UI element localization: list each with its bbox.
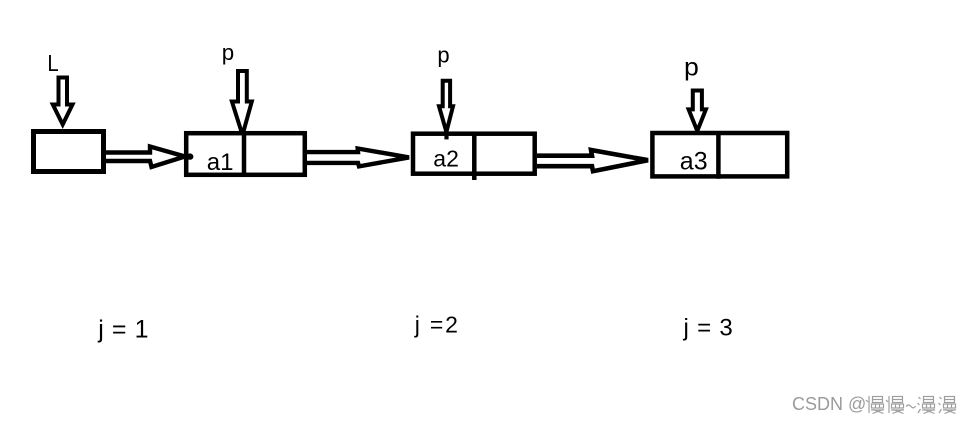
header box L: [34, 132, 104, 172]
慢 #2: [886, 396, 904, 414]
漫 #1: [918, 397, 936, 414]
down block arrow p over a2: [439, 81, 453, 132]
wire arrow L to a1: [106, 147, 185, 168]
wire arrow a2 to a3: [537, 150, 648, 171]
down block arrow p over a1: [232, 71, 252, 135]
漫 #2: [939, 397, 957, 414]
node a1 box: [186, 133, 305, 175]
node a2 divider: [472, 132, 477, 181]
svg-text:a2: a2: [433, 146, 459, 172]
tilde: [906, 405, 916, 408]
svg-text:CSDN @: CSDN @: [792, 394, 866, 414]
svg-text:p: p: [222, 40, 234, 65]
svg-text:L: L: [47, 50, 58, 76]
svg-text:j = 1: j = 1: [97, 315, 149, 343]
svg-text:p: p: [437, 43, 449, 68]
svg-text:a1: a1: [207, 149, 234, 176]
node a1 divider: [242, 131, 247, 177]
watermark CJK glyphs approximation: [866, 396, 956, 414]
arrow tip nub inside a1: [187, 153, 194, 159]
svg-text:p: p: [684, 54, 699, 82]
watermark CSDN: [792, 394, 866, 414]
node a2 box: [413, 134, 535, 174]
慢 #1: [866, 396, 884, 414]
node a3 box: [652, 133, 787, 176]
svg-text:a3: a3: [680, 147, 708, 175]
wire arrow a1 to a2: [307, 149, 409, 167]
p arrow tip nub below a2 top edge: [444, 134, 448, 139]
down block arrow under L: [53, 78, 73, 125]
down block arrow p over a3: [689, 91, 706, 132]
svg-text:j =2: j =2: [414, 312, 460, 338]
node a3 divider: [716, 131, 721, 179]
svg-text:j = 3: j = 3: [683, 314, 734, 341]
